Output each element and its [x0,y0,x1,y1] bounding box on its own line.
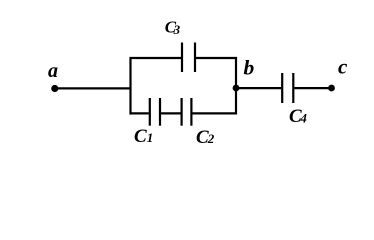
svg-text:a: a [48,60,58,82]
wire: top branch left [130,57,182,59]
capacitor C1 [150,98,160,126]
wire: left vertical [129,57,131,115]
svg-text:C4: C4 [289,106,307,127]
wire: bottom branch middle [161,112,181,114]
svg-text:C2: C2 [196,127,215,148]
wire: bottom branch left [130,112,149,114]
capacitor C4 [282,73,293,103]
node c [328,85,335,92]
svg-text:C3: C3 [165,18,181,38]
capacitor C2 [182,98,192,126]
svg-text:b: b [244,56,255,80]
capacitor C3 [182,43,195,73]
wire: node b to C4 [236,87,281,89]
wire: right vertical [235,57,237,115]
node b [233,85,240,92]
wire: top branch right [196,57,237,59]
wire: C4 to node c [294,87,331,89]
svg-text:C1: C1 [134,126,153,147]
wire: node a to left junction [55,87,132,89]
svg-text:c: c [338,55,348,79]
node a [51,85,58,92]
wire: bottom branch right [192,112,237,114]
